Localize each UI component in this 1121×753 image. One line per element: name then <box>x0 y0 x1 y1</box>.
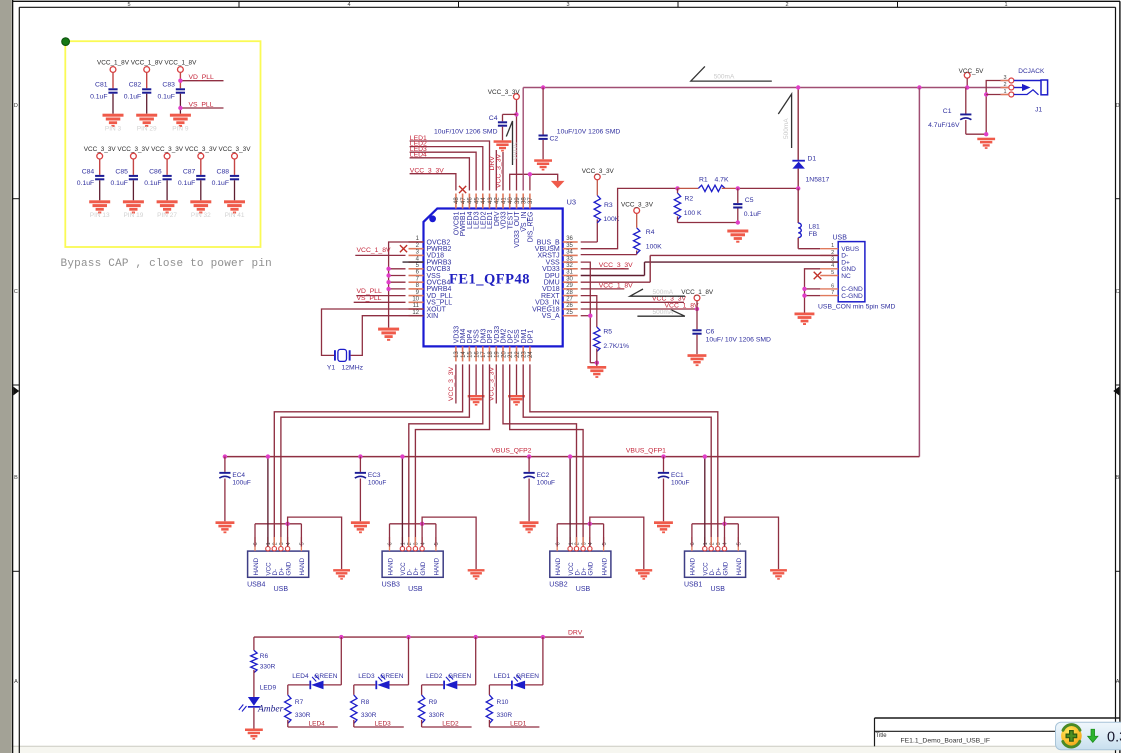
svg-text:B: B <box>14 475 18 481</box>
svg-text:XIN: XIN <box>427 313 439 320</box>
svg-text:DCJACK: DCJACK <box>1018 68 1045 75</box>
svg-text:4: 4 <box>831 263 834 269</box>
svg-text:GND: GND <box>722 561 729 575</box>
svg-text:41: 41 <box>501 197 507 204</box>
svg-text:3: 3 <box>716 542 722 545</box>
svg-text:VCC_1_8V: VCC_1_8V <box>164 59 197 66</box>
svg-text:USB: USB <box>274 586 289 593</box>
svg-text:1: 1 <box>401 542 407 545</box>
svg-text:J1: J1 <box>1035 107 1042 114</box>
svg-text:4: 4 <box>723 542 729 545</box>
svg-text:USB: USB <box>711 586 726 593</box>
svg-text:4: 4 <box>588 542 594 545</box>
svg-text:40: 40 <box>508 197 514 204</box>
svg-text:USB: USB <box>408 586 423 593</box>
svg-text:330R: 330R <box>260 663 276 670</box>
svg-text:1: 1 <box>703 542 709 545</box>
svg-text:100uF: 100uF <box>537 479 555 486</box>
svg-text:1N5817: 1N5817 <box>806 177 830 184</box>
svg-text:PIN 27: PIN 27 <box>157 212 177 219</box>
svg-text:HAND: HAND <box>555 557 562 575</box>
svg-text:C2: C2 <box>550 135 559 142</box>
svg-text:EC2: EC2 <box>537 472 550 479</box>
svg-text:C86: C86 <box>149 168 162 175</box>
svg-text:C1: C1 <box>943 108 952 115</box>
svg-text:VCC_1_8V: VCC_1_8V <box>599 282 633 289</box>
svg-text:24: 24 <box>528 351 534 358</box>
svg-text:47: 47 <box>461 197 467 204</box>
svg-text:VS_A: VS_A <box>542 313 560 320</box>
svg-text:VS_PLL: VS_PLL <box>357 295 382 302</box>
svg-text:2: 2 <box>785 2 788 8</box>
svg-text:DP1: DP1 <box>528 330 535 344</box>
svg-text:6: 6 <box>831 283 834 289</box>
svg-text:C88: C88 <box>217 168 230 175</box>
svg-text:500mA: 500mA <box>714 74 735 81</box>
svg-text:Y1: Y1 <box>327 364 336 371</box>
svg-text:HAND: HAND <box>601 557 608 575</box>
svg-text:VCC_3_3V: VCC_3_3V <box>185 146 218 153</box>
svg-text:USB: USB <box>833 235 848 242</box>
svg-text:LED3: LED3 <box>358 673 375 680</box>
svg-text:6: 6 <box>690 542 696 545</box>
svg-text:33: 33 <box>566 256 573 262</box>
svg-text:0.1uF: 0.1uF <box>124 93 141 100</box>
svg-text:GREEN: GREEN <box>314 673 337 680</box>
svg-text:4.7uF/16V: 4.7uF/16V <box>928 122 960 129</box>
svg-text:R1: R1 <box>699 176 708 183</box>
svg-text:PIN 13: PIN 13 <box>90 212 110 219</box>
svg-text:0.1uF: 0.1uF <box>77 180 94 187</box>
svg-text:USB_CON min 5pin SMD: USB_CON min 5pin SMD <box>818 303 896 310</box>
svg-text:LED2: LED2 <box>426 673 443 680</box>
svg-text:23: 23 <box>522 351 528 358</box>
svg-text:43: 43 <box>488 197 494 204</box>
svg-text:500mA: 500mA <box>783 118 790 139</box>
svg-text:13: 13 <box>454 351 460 358</box>
svg-text:GREEN: GREEN <box>448 673 471 680</box>
svg-text:GND: GND <box>285 561 292 575</box>
svg-text:3: 3 <box>566 2 569 8</box>
svg-text:3: 3 <box>581 542 587 545</box>
svg-text:VCC_3_3V: VCC_3_3V <box>488 89 521 96</box>
svg-text:Amber: Amber <box>257 705 284 715</box>
svg-text:100uF: 100uF <box>368 479 386 486</box>
svg-text:DRV: DRV <box>568 630 583 637</box>
svg-text:A: A <box>1116 679 1120 685</box>
svg-text:0.3: 0.3 <box>1107 730 1121 746</box>
svg-text:D: D <box>1116 103 1120 109</box>
svg-text:LED1: LED1 <box>494 673 511 680</box>
svg-text:VD_PLL: VD_PLL <box>189 74 215 81</box>
svg-text:4.7K: 4.7K <box>715 176 729 183</box>
svg-text:C5: C5 <box>745 197 754 204</box>
svg-text:FB: FB <box>809 231 818 238</box>
svg-text:LED4: LED4 <box>292 673 309 680</box>
svg-text:12: 12 <box>412 310 419 316</box>
svg-text:3: 3 <box>279 542 285 545</box>
svg-text:HAND: HAND <box>690 557 697 575</box>
svg-text:10uF/ 10V 1206 SMD: 10uF/ 10V 1206 SMD <box>706 336 771 343</box>
svg-text:6: 6 <box>253 542 259 545</box>
svg-text:VCC_3_3V: VCC_3_3V <box>219 146 252 153</box>
svg-text:6: 6 <box>388 542 394 545</box>
svg-text:12MHz: 12MHz <box>342 364 364 371</box>
svg-text:18: 18 <box>488 351 494 358</box>
svg-text:FE1.1_Demo_Board_USB_IF: FE1.1_Demo_Board_USB_IF <box>901 738 991 745</box>
svg-text:5: 5 <box>602 542 608 545</box>
svg-text:HAND: HAND <box>736 557 743 575</box>
svg-text:DIS_REG: DIS_REG <box>528 212 535 243</box>
svg-text:PIN 19: PIN 19 <box>123 212 143 219</box>
svg-text:C87: C87 <box>183 168 196 175</box>
svg-text:R8: R8 <box>361 699 370 706</box>
svg-text:11: 11 <box>413 303 420 309</box>
svg-text:4: 4 <box>286 542 292 545</box>
svg-text:LED4: LED4 <box>410 152 427 159</box>
svg-text:LED2: LED2 <box>442 720 459 727</box>
svg-text:EC1: EC1 <box>671 472 684 479</box>
svg-text:38: 38 <box>522 197 528 204</box>
svg-text:C4: C4 <box>489 115 498 122</box>
svg-text:EC3: EC3 <box>368 472 381 479</box>
svg-text:17: 17 <box>481 351 487 358</box>
svg-text:2.7K/1%: 2.7K/1% <box>603 343 629 350</box>
svg-text:10uF/10V 1206 SMD: 10uF/10V 1206 SMD <box>557 129 621 136</box>
svg-text:VCC_3_3V: VCC_3_3V <box>84 146 117 153</box>
svg-text:5: 5 <box>831 270 834 276</box>
svg-text:22: 22 <box>515 351 521 358</box>
svg-text:0.1uF: 0.1uF <box>144 180 161 187</box>
svg-text:HAND: HAND <box>434 557 441 575</box>
svg-text:VCC_3_3V: VCC_3_3V <box>117 146 150 153</box>
svg-text:32: 32 <box>566 263 573 269</box>
svg-text:FE1_QFP48: FE1_QFP48 <box>449 272 530 288</box>
svg-text:1: 1 <box>568 542 574 545</box>
svg-text:37: 37 <box>528 197 534 204</box>
svg-text:0.1uF: 0.1uF <box>90 93 107 100</box>
svg-text:100K: 100K <box>646 243 662 250</box>
svg-text:PIN 3: PIN 3 <box>105 126 122 133</box>
svg-text:0.1uF: 0.1uF <box>158 93 175 100</box>
svg-text:R3: R3 <box>604 202 613 209</box>
svg-text:28: 28 <box>566 290 573 296</box>
svg-text:PIN 29: PIN 29 <box>137 126 157 133</box>
svg-text:2: 2 <box>709 542 715 545</box>
svg-text:5: 5 <box>300 542 306 545</box>
svg-text:NC: NC <box>841 273 851 280</box>
svg-text:21: 21 <box>508 351 514 358</box>
svg-text:USB4: USB4 <box>247 582 265 589</box>
svg-text:USB2: USB2 <box>549 582 567 589</box>
svg-text:VCC_3_3V: VCC_3_3V <box>448 367 455 401</box>
svg-text:100uF: 100uF <box>232 479 250 486</box>
svg-text:26: 26 <box>566 303 573 309</box>
svg-text:C: C <box>1116 289 1120 295</box>
svg-text:19: 19 <box>495 351 501 358</box>
svg-text:VS_PLL: VS_PLL <box>189 101 214 108</box>
svg-text:VCC_3_3V: VCC_3_3V <box>582 168 615 175</box>
svg-text:10: 10 <box>412 297 419 303</box>
svg-text:R2: R2 <box>685 196 694 203</box>
svg-text:20: 20 <box>501 351 507 358</box>
svg-text:C85: C85 <box>115 168 128 175</box>
svg-text:100uF: 100uF <box>671 479 689 486</box>
svg-text:VCC_1_8V: VCC_1_8V <box>357 247 391 254</box>
svg-text:VCC_1_8V: VCC_1_8V <box>131 59 164 66</box>
svg-text:25: 25 <box>566 310 573 316</box>
svg-text:PIN 41: PIN 41 <box>225 212 245 219</box>
svg-text:A: A <box>14 679 18 685</box>
svg-text:HAND: HAND <box>387 557 394 575</box>
svg-text:100 K: 100 K <box>684 210 702 217</box>
svg-text:VBUS_QFP1: VBUS_QFP1 <box>626 448 666 455</box>
svg-text:500mA: 500mA <box>653 289 674 296</box>
svg-text:44: 44 <box>481 197 487 204</box>
svg-text:R9: R9 <box>429 699 438 706</box>
svg-text:0.1uF: 0.1uF <box>111 180 128 187</box>
svg-text:VCC_3_3V: VCC_3_3V <box>621 202 654 209</box>
svg-text:3: 3 <box>414 542 420 545</box>
svg-text:16: 16 <box>474 351 480 358</box>
svg-text:2: 2 <box>1003 82 1006 88</box>
svg-text:5: 5 <box>737 542 743 545</box>
svg-text:LED9: LED9 <box>260 684 277 691</box>
svg-text:48: 48 <box>454 197 460 204</box>
svg-text:0.1uF: 0.1uF <box>178 180 195 187</box>
svg-text:330R: 330R <box>497 712 513 719</box>
svg-text:34: 34 <box>566 250 573 256</box>
svg-text:R5: R5 <box>603 329 612 336</box>
svg-text:USB1: USB1 <box>684 582 702 589</box>
svg-text:2: 2 <box>273 542 279 545</box>
svg-text:VCC_1_8V: VCC_1_8V <box>681 289 714 296</box>
svg-text:PIN 9: PIN 9 <box>172 126 189 133</box>
svg-text:14: 14 <box>461 351 467 358</box>
svg-text:30: 30 <box>566 276 573 282</box>
svg-text:U3: U3 <box>567 198 577 207</box>
svg-text:1: 1 <box>1004 2 1007 8</box>
svg-text:VBUS_QFP2: VBUS_QFP2 <box>491 448 531 455</box>
svg-text:VCC_5V: VCC_5V <box>959 68 985 75</box>
svg-text:GND: GND <box>420 561 427 575</box>
svg-text:VCC_3_3V: VCC_3_3V <box>151 146 184 153</box>
svg-text:R7: R7 <box>295 699 304 706</box>
svg-text:C83: C83 <box>162 82 175 89</box>
svg-text:0.1uF: 0.1uF <box>212 180 229 187</box>
svg-text:6: 6 <box>555 542 561 545</box>
svg-text:27: 27 <box>566 297 573 303</box>
svg-text:D1: D1 <box>808 155 817 162</box>
svg-text:45: 45 <box>474 197 480 204</box>
svg-text:500mA: 500mA <box>653 309 674 316</box>
svg-text:HAND: HAND <box>299 557 306 575</box>
svg-text:5: 5 <box>127 2 130 8</box>
svg-text:15: 15 <box>468 351 474 358</box>
svg-text:R6: R6 <box>260 653 269 660</box>
svg-text:C81: C81 <box>95 82 108 89</box>
svg-text:39: 39 <box>515 197 521 204</box>
svg-text:2: 2 <box>407 542 413 545</box>
svg-text:R10: R10 <box>497 699 509 706</box>
svg-text:5: 5 <box>434 542 440 545</box>
svg-text:GREEN: GREEN <box>380 673 403 680</box>
svg-text:D: D <box>14 103 18 109</box>
svg-text:LED1: LED1 <box>510 720 527 727</box>
svg-text:VCC_3_3V: VCC_3_3V <box>410 167 444 174</box>
svg-text:VCC_3_3V: VCC_3_3V <box>599 262 633 269</box>
svg-text:29: 29 <box>566 283 573 289</box>
svg-text:330R: 330R <box>295 712 311 719</box>
svg-text:HAND: HAND <box>253 557 260 575</box>
svg-text:35: 35 <box>566 243 573 249</box>
svg-text:R4: R4 <box>646 229 655 236</box>
svg-text:B: B <box>1116 475 1120 481</box>
svg-text:C-GND: C-GND <box>841 293 863 300</box>
svg-text:1: 1 <box>1003 89 1006 95</box>
svg-text:4: 4 <box>347 2 350 8</box>
svg-text:4: 4 <box>420 542 426 545</box>
svg-text:USB3: USB3 <box>382 582 400 589</box>
svg-text:VCC_3_3V: VCC_3_3V <box>495 154 502 188</box>
svg-text:46: 46 <box>468 197 474 204</box>
svg-text:36: 36 <box>566 236 573 242</box>
svg-text:C84: C84 <box>82 168 95 175</box>
svg-text:GND: GND <box>588 561 595 575</box>
svg-text:VBUS: VBUS <box>513 142 520 160</box>
svg-text:0.1uF: 0.1uF <box>744 211 761 218</box>
svg-text:330R: 330R <box>429 712 445 719</box>
svg-text:C82: C82 <box>129 82 142 89</box>
svg-text:VCC_1_8V: VCC_1_8V <box>97 59 130 66</box>
svg-text:31: 31 <box>566 270 573 276</box>
svg-text:LED4: LED4 <box>309 720 326 727</box>
svg-text:PIN 32: PIN 32 <box>191 212 211 219</box>
svg-text:3: 3 <box>1003 75 1006 81</box>
svg-text:Bypass CAP , close to power pi: Bypass CAP , close to power pin <box>61 258 272 270</box>
svg-text:L81: L81 <box>809 224 821 231</box>
svg-text:10uF/10V 1206 SMD: 10uF/10V 1206 SMD <box>434 129 498 136</box>
svg-text:C6: C6 <box>706 329 715 336</box>
svg-text:2: 2 <box>575 542 581 545</box>
svg-text:1: 1 <box>831 243 834 249</box>
svg-text:C: C <box>14 289 18 295</box>
svg-text:LED3: LED3 <box>375 720 392 727</box>
svg-text:42: 42 <box>495 197 501 204</box>
svg-text:USB: USB <box>576 586 591 593</box>
svg-text:EC4: EC4 <box>232 472 245 479</box>
svg-text:1: 1 <box>266 542 272 545</box>
svg-text:330R: 330R <box>361 712 377 719</box>
svg-text:GREEN: GREEN <box>516 673 539 680</box>
svg-text:7: 7 <box>831 290 834 296</box>
svg-text:Title: Title <box>876 733 888 739</box>
